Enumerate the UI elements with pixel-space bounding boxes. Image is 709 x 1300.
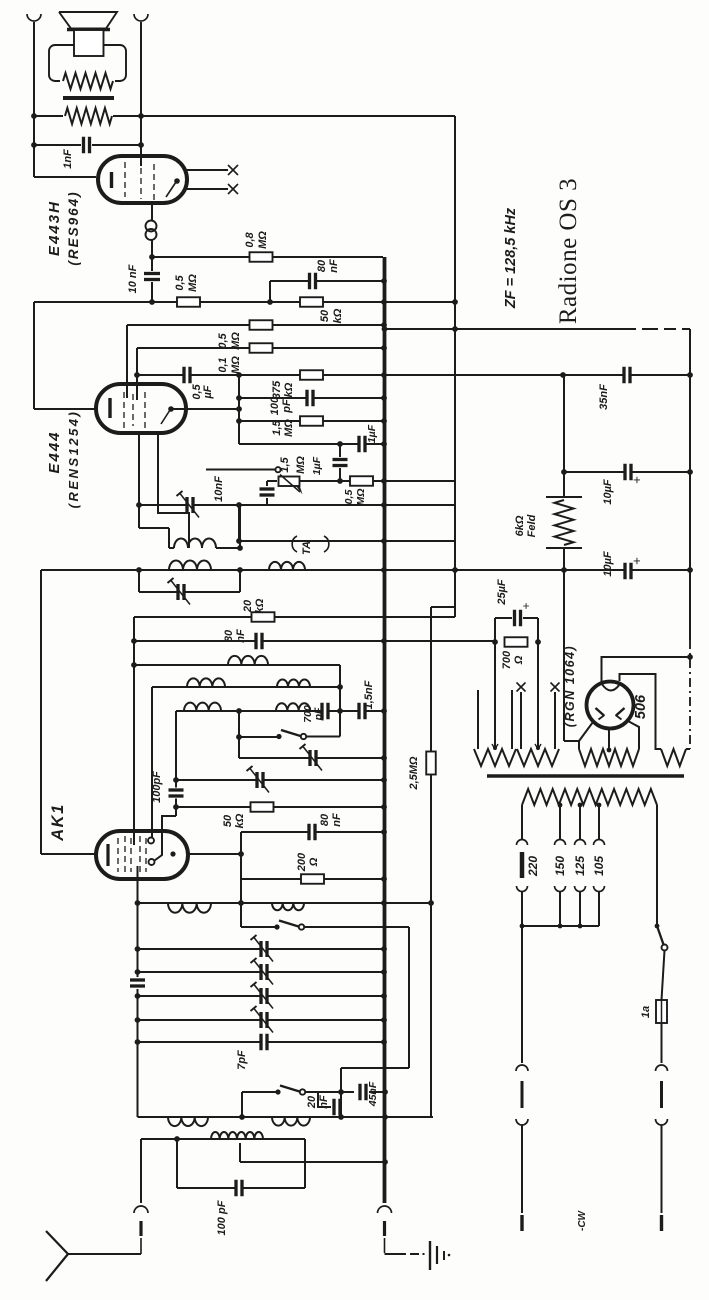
socket antenna — [134, 1206, 148, 1213]
svg-text:kΩ: kΩ — [254, 598, 266, 613]
node bus 281 — [381, 278, 387, 284]
cathode bar AK1 — [106, 844, 109, 866]
wire E444 g3 drop — [158, 434, 189, 548]
node bus 711 — [381, 708, 387, 714]
wire wind4 right riser — [686, 748, 690, 750]
svg-text:MΩ: MΩ — [355, 489, 367, 506]
wire wiper lead — [206, 469, 275, 471]
svg-text:7pF: 7pF — [236, 1050, 248, 1070]
switch wave band 2 — [274, 924, 279, 929]
capacitor 45 nF — [362, 1084, 365, 1101]
wire px341 1092-1117 — [340, 1092, 342, 1117]
node 431 row903 — [428, 900, 434, 906]
tube AK1 octode mixer — [96, 831, 188, 879]
svg-text:2,5MΩ: 2,5MΩ — [408, 756, 420, 790]
trimmer capacitor IF1 — [189, 497, 192, 513]
svg-text:10µF: 10µF — [602, 551, 614, 577]
wire row 302 — [34, 301, 455, 303]
node bus 879 — [381, 876, 387, 882]
node 564 472 — [561, 469, 567, 475]
node bus 1162 — [382, 1159, 388, 1165]
wire row 592 box — [139, 591, 240, 593]
svg-text:150: 150 — [553, 856, 567, 876]
svg-text:Ω: Ω — [308, 857, 320, 867]
wire row 926 — [522, 925, 599, 927]
inductor osc coil d — [272, 1117, 310, 1126]
node 239 row398 — [236, 395, 242, 401]
svg-text:1µF: 1µF — [366, 424, 378, 443]
svg-text:105: 105 — [592, 856, 606, 876]
wire px176 g4 drop — [175, 711, 177, 788]
wire row737 switch — [239, 736, 279, 738]
node 340 row444 — [337, 441, 343, 447]
wire row 398 — [239, 397, 384, 399]
node 340 687 — [337, 684, 343, 690]
svg-text:0,1: 0,1 — [217, 357, 229, 372]
inductor antenna input coil — [211, 1132, 263, 1139]
wire row 325 — [127, 324, 384, 326]
svg-text:50: 50 — [319, 309, 331, 322]
terminal speaker right — [134, 14, 148, 21]
wire row py116 — [34, 115, 63, 117]
trimmer capacitor padder 1 — [312, 750, 315, 766]
capacitor 80 nF second — [258, 633, 261, 650]
field coil 6k Feld — [546, 496, 582, 498]
node 139 row570 — [136, 567, 142, 573]
wire ant box right — [304, 1139, 306, 1188]
svg-text:nF: nF — [328, 259, 340, 273]
wire row 1117 — [138, 1116, 434, 1118]
wire px138 vertical lower — [137, 989, 139, 1117]
plug 220 — [517, 840, 528, 846]
tap 220 lead — [521, 805, 523, 840]
heater stub 1 — [477, 690, 479, 749]
wire row 687 — [152, 686, 340, 688]
node 341 1117 — [338, 1114, 344, 1120]
wire 20nF branch — [318, 1092, 331, 1107]
inductor IF coil A — [174, 538, 216, 548]
heater stub X1 — [520, 692, 522, 749]
capacitor 100 pF antenna — [238, 1180, 241, 1197]
wire AK1 bottom drop — [137, 866, 139, 903]
resistor 1,5 MOhm — [300, 416, 323, 426]
node bus 541 — [381, 538, 387, 544]
wire row 832 — [241, 831, 384, 833]
node 455 329 — [452, 326, 458, 332]
plug mains left — [516, 1065, 528, 1071]
wire tap to RGN — [608, 729, 610, 749]
wire antenna row 1139 — [141, 1138, 305, 1140]
heater stub 2 — [511, 690, 513, 749]
wire 564 lower — [563, 548, 565, 741]
grid dashes AK1 — [117, 838, 119, 872]
capacitor 10nF detector — [260, 491, 275, 494]
svg-text:MΩ: MΩ — [230, 356, 242, 374]
node bus 1117 — [382, 1114, 388, 1120]
node bus 302 — [381, 299, 387, 305]
anode dot E443H — [174, 178, 180, 184]
node bus 505 — [381, 502, 387, 508]
svg-text:80: 80 — [319, 813, 331, 826]
inductor coil 687b — [277, 680, 310, 687]
node 340 row711 — [337, 708, 343, 714]
wire row 472 — [564, 471, 690, 473]
svg-text:MΩ: MΩ — [283, 419, 295, 437]
node HT center tap — [607, 748, 612, 753]
wire left rail seg3 — [40, 570, 42, 854]
node bus 641 — [381, 638, 387, 644]
wire 1uF vertical branch — [339, 444, 341, 457]
node bus 903 — [381, 900, 387, 906]
wire 564 vertical — [563, 375, 565, 497]
svg-text:+: + — [519, 602, 533, 609]
wire row 1188 — [177, 1187, 305, 1189]
svg-text:Feld: Feld — [526, 514, 538, 537]
wire right rail 690 — [689, 329, 691, 640]
svg-text:(RES964): (RES964) — [66, 190, 81, 265]
svg-text:TA: TA — [301, 541, 313, 555]
wire grid2 drop E444 — [136, 348, 138, 385]
node 241 854 — [238, 851, 244, 857]
svg-text:45nF: 45nF — [367, 1081, 379, 1107]
resistor 50 kOhm — [300, 297, 323, 307]
capacitor 100 pF — [309, 390, 312, 407]
wire row 617 — [134, 616, 455, 618]
wire row 421 — [239, 420, 384, 422]
node 239 row505 — [236, 502, 242, 508]
svg-text:+: + — [629, 557, 644, 565]
node row302 at 270 — [267, 299, 273, 305]
socket chassis — [378, 1206, 392, 1213]
resistor 0,5 MOhm second — [250, 320, 273, 330]
node bus 780 — [381, 777, 387, 783]
inductor osc coil a — [168, 903, 211, 913]
node bus 421 — [381, 418, 387, 424]
wire px431 2,5M vertical — [430, 607, 432, 1117]
svg-text:100pF: 100pF — [151, 771, 163, 803]
svg-text:E444: E444 — [46, 430, 63, 473]
bus main vertical — [383, 257, 387, 1203]
svg-text:(RENS1254): (RENS1254) — [66, 410, 81, 509]
svg-text:0,5: 0,5 — [217, 332, 229, 348]
wire row 996 — [138, 995, 385, 997]
wire row 348 — [137, 347, 384, 349]
capacitor 1,5 nF — [361, 703, 364, 720]
wire 176 jog into tube — [155, 816, 177, 861]
wire ant box left — [176, 1139, 178, 1188]
wire speaker right lead — [140, 22, 142, 156]
svg-text:50: 50 — [222, 814, 234, 827]
capacitor 25 uF — [516, 610, 519, 627]
capacitor 80 nF third — [311, 824, 314, 841]
tap arrow 1 — [492, 744, 498, 749]
filament RGN right — [616, 708, 625, 716]
tube RGN1064 rectifier — [587, 682, 634, 729]
potentiometer 1,5 MOhm — [279, 477, 300, 487]
wire px242 vertical — [241, 1092, 243, 1117]
wire 564 to winding — [564, 740, 579, 742]
node 239 anode — [236, 406, 242, 412]
wire grid1 drop E444 — [126, 325, 128, 385]
wire 10nF drop — [151, 257, 153, 271]
node bus 375 — [381, 372, 387, 378]
svg-text:kΩ: kΩ — [234, 813, 246, 828]
resistor 200 Ohm — [301, 874, 324, 884]
wire 10nF tap — [267, 480, 277, 482]
svg-text:80: 80 — [316, 259, 328, 272]
wire row 541 TA — [239, 540, 455, 542]
wire HT right riser — [628, 721, 639, 749]
wire row 1042 — [138, 1041, 385, 1043]
wire box700 left — [494, 618, 496, 749]
svg-text:pF: pF — [313, 707, 325, 721]
inductor coil row570 b — [269, 562, 305, 570]
svg-text:375: 375 — [271, 380, 283, 399]
svg-text:MΩ: MΩ — [257, 231, 269, 249]
node 177 1139 — [174, 1136, 180, 1142]
node 239 row541 — [236, 538, 242, 544]
resistor 0,5 MOhm third — [350, 476, 373, 486]
switch wave band 1 — [276, 734, 281, 739]
variable capacitor gang 2 — [263, 964, 266, 980]
wire long top row to px455 — [141, 115, 455, 117]
wire px340 vertical — [339, 665, 341, 737]
svg-text:+: + — [629, 476, 644, 484]
resistor 0,5 MOhm grid leak — [177, 297, 200, 307]
resistor 20 kOhm — [252, 612, 275, 622]
svg-text:1µF: 1µF — [311, 456, 323, 475]
wire row 641 — [134, 640, 495, 642]
wire AK1 cathode row — [41, 853, 96, 855]
wire px455 vertical — [454, 116, 456, 617]
node 134 row665 — [131, 662, 137, 668]
capacitor 1nF — [85, 137, 88, 154]
switch mains — [655, 924, 660, 929]
wire top corner 431-455 — [431, 606, 455, 608]
svg-text:Radione OS 3: Radione OS 3 — [555, 178, 582, 324]
wire px239 505-541 — [238, 505, 240, 541]
resistor 0,8 MOhm — [250, 252, 273, 262]
capacitor 0,5 uF — [186, 367, 189, 384]
inductor coil 687a — [187, 678, 225, 687]
resistor voice coil — [63, 73, 113, 89]
node bus 1092 — [382, 1089, 388, 1095]
wire RGN notch right lead — [620, 674, 662, 749]
variable capacitor gang 4 — [263, 1012, 266, 1028]
svg-text:6kΩ: 6kΩ — [514, 515, 526, 536]
svg-text:ZF = 128,5 kHz: ZF = 128,5 kHz — [503, 207, 519, 309]
svg-text:(RGN 1064): (RGN 1064) — [563, 645, 577, 727]
wire row 481 — [300, 480, 455, 482]
node 495 642 — [492, 639, 498, 645]
tap arrow 2 — [535, 744, 541, 749]
node 134 row641 — [131, 638, 137, 644]
svg-text:nF: nF — [331, 813, 343, 827]
wire row 972 — [138, 971, 385, 973]
wire row 444 — [239, 443, 384, 445]
wire AK1 anode row — [188, 853, 241, 855]
grid dashes E443H — [124, 162, 126, 197]
svg-text:nF: nF — [235, 629, 247, 643]
tap 105 — [597, 803, 602, 808]
inductor coil 711a — [184, 703, 221, 711]
svg-text:200: 200 — [296, 852, 308, 872]
grid dashes E444 — [123, 392, 125, 428]
wire row 1092 switch3 — [242, 1091, 278, 1093]
inductor coil row570 a — [169, 560, 211, 570]
node bus 758 — [381, 755, 387, 761]
node grid junction — [149, 254, 155, 260]
svg-text:10nF: 10nF — [213, 476, 225, 502]
wire row 505 — [139, 504, 455, 506]
svg-text:506: 506 — [633, 694, 649, 719]
anode dot AK1 — [170, 851, 175, 856]
speaker magnet box — [49, 45, 126, 81]
resistor 50 kOhm second — [251, 802, 274, 812]
node bus 481 — [381, 478, 387, 484]
svg-text:nF: nF — [318, 1095, 330, 1109]
capacitor 100 pF AK1 — [169, 792, 184, 795]
wire row 0,8M — [152, 256, 383, 258]
capacitor 10 uF electrolytic upper — [627, 464, 630, 481]
capacitor 35 nF — [626, 367, 629, 384]
svg-text:kΩ: kΩ — [332, 308, 344, 323]
wire row 528 jog — [139, 527, 169, 529]
svg-text:100 pF: 100 pF — [216, 1200, 228, 1235]
wire mains pin right — [662, 951, 665, 1001]
wire HT left riser — [579, 722, 593, 749]
node 564 row570 — [561, 567, 567, 573]
wire row 780 — [176, 779, 384, 781]
winding rectifier filament — [661, 749, 686, 766]
wire px341 vertical — [340, 1068, 342, 1117]
anode dot E444 — [168, 406, 174, 412]
wire px239 711-758 — [238, 711, 240, 758]
node row302 left — [149, 299, 155, 305]
cathode bar E444 — [108, 398, 111, 418]
winding mains primary — [522, 789, 657, 805]
tube E444 IF amplifier — [96, 384, 186, 433]
resistor 0,1 MOhm — [250, 343, 273, 353]
capacitor 1 uF second — [333, 461, 348, 464]
wire anode row E444 — [170, 408, 239, 410]
transformer core bar — [487, 774, 684, 778]
svg-text:kΩ: kΩ — [283, 382, 295, 397]
node 239 row421 — [236, 418, 242, 424]
inductor grid choke — [146, 221, 157, 232]
node bus 444 — [381, 441, 387, 447]
wire box700 top — [495, 617, 512, 619]
svg-text:35nF: 35nF — [598, 384, 610, 410]
grid cap circle 2 — [149, 859, 155, 865]
wire E443H top-cap leads — [187, 169, 228, 171]
variable capacitor gang 1 — [263, 941, 266, 957]
node 690 656 — [687, 654, 693, 660]
capacitor 700 pF — [324, 703, 327, 720]
wire row 665 — [134, 664, 340, 666]
wire row 1068 — [341, 1067, 409, 1069]
node 690 row375 — [687, 372, 693, 378]
tube E443H output pentode — [98, 156, 187, 203]
wire antenna lead down — [140, 1139, 142, 1203]
wire row 329 HT box top — [385, 328, 637, 330]
node bus 832 — [381, 829, 387, 835]
svg-text:pF: pF — [281, 399, 293, 414]
svg-text:1a: 1a — [640, 1006, 652, 1018]
winding heater 2 — [517, 749, 559, 766]
wire E444 screen drop — [138, 434, 140, 528]
capacitor 10 nF — [144, 275, 160, 278]
inductor osc coil c — [168, 1117, 208, 1126]
svg-text:20: 20 — [242, 599, 254, 613]
wire 1nF row — [34, 144, 81, 146]
node 239 row375 — [236, 372, 242, 378]
node 240 row570 — [237, 567, 243, 573]
wire row 903 — [138, 902, 432, 904]
wire box700 right — [537, 618, 539, 749]
speaker neck — [74, 30, 104, 56]
svg-text:20: 20 — [306, 1095, 318, 1109]
resistor 700 Ohm — [505, 637, 528, 647]
tap 150 — [558, 803, 563, 808]
node 563 row375 — [560, 372, 566, 378]
node 176 row807 — [173, 804, 179, 810]
cathode bar E443H — [110, 172, 113, 188]
svg-text:E443H: E443H — [46, 200, 63, 256]
node 690 row570 — [687, 567, 693, 573]
node bus 398 — [381, 395, 387, 401]
terminal pot wiper — [275, 467, 280, 472]
wire row 758 — [239, 757, 384, 759]
wire coil tap — [239, 1143, 241, 1162]
svg-text:AK1: AK1 — [49, 803, 67, 842]
wire RGN top to rail — [602, 657, 691, 682]
transformer core bar — [63, 96, 114, 100]
wire E444 cathode row — [34, 408, 96, 410]
winding heater 1 — [474, 749, 516, 766]
variable capacitor gang 3 — [263, 988, 266, 1004]
X mark top lead 1 — [228, 165, 238, 175]
grid cap circle 1 — [148, 838, 154, 844]
capacitor 20 nF — [336, 1099, 339, 1116]
wire row 570 long — [41, 569, 690, 571]
node 239 row711 — [236, 708, 242, 714]
wire box241 vertical — [240, 832, 242, 927]
svg-text:125: 125 — [573, 856, 587, 876]
wire row 1020 — [138, 1019, 385, 1021]
wire box left 567-592 — [138, 570, 140, 592]
wire row 949 — [138, 948, 385, 950]
capacitor 10 uF electrolytic lower — [627, 563, 630, 580]
wire primary right down — [656, 805, 658, 926]
svg-text:10µF: 10µF — [602, 479, 614, 505]
capacitor 80 nF — [311, 273, 314, 290]
svg-text:0,8: 0,8 — [244, 231, 256, 247]
svg-text:25µF: 25µF — [496, 579, 508, 606]
node 690 472 — [687, 469, 693, 475]
switch wave band 3 — [275, 1089, 280, 1094]
svg-text:MΩ: MΩ — [295, 456, 307, 474]
wire px134 AK1 grid — [133, 617, 135, 845]
node 137 row375 — [134, 372, 140, 378]
X mark top lead 2 — [228, 184, 238, 194]
svg-text:0,5: 0,5 — [174, 274, 186, 290]
wire mains pin left — [521, 926, 523, 1063]
resistor 2,5 MOhm — [426, 752, 436, 775]
wire antenna shaft — [68, 1253, 141, 1255]
svg-text:80: 80 — [223, 629, 235, 642]
svg-text:-CW: -CW — [577, 1209, 588, 1231]
